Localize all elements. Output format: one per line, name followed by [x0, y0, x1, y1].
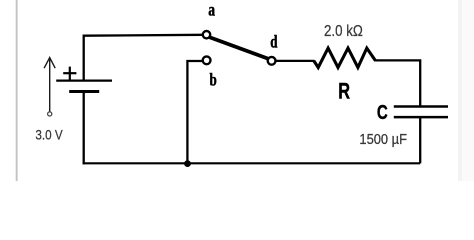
emf arrow — [44, 58, 55, 112]
battery long plate (+) — [56, 79, 112, 81]
emf arrow circle — [48, 112, 52, 116]
svg-text:2.0 kΩ: 2.0 kΩ — [324, 23, 363, 40]
battery short plate (-) — [69, 90, 99, 93]
svg-text:b: b — [210, 69, 217, 89]
right margin shading — [459, 0, 474, 181]
switch blade a-d — [210, 37, 269, 58]
switch terminal b — [203, 56, 211, 64]
junction dot — [184, 160, 191, 167]
svg-text:C: C — [377, 102, 388, 124]
svg-text:a: a — [208, 0, 215, 20]
svg-text:d: d — [270, 32, 277, 52]
capacitor bottom plate — [394, 116, 448, 119]
wire top: battery to switch a — [84, 35, 203, 81]
svg-text:R: R — [338, 79, 350, 104]
capacitor top plate — [394, 105, 448, 108]
switch terminal d — [268, 57, 276, 65]
wire resistor to top right corner and down — [375, 60, 420, 106]
wire capacitor to bottom — [419, 117, 421, 163]
svg-text:3.0 V: 3.0 V — [35, 127, 63, 143]
left margin rule — [16, 0, 18, 181]
svg-text:1500 µF: 1500 µF — [359, 132, 407, 148]
wire b to bottom junction — [187, 61, 202, 163]
resistor R zigzag — [314, 48, 376, 67]
right faint rule — [458, 0, 462, 181]
bottom wire — [83, 162, 421, 164]
switch terminal a — [203, 31, 210, 38]
wire d to resistor — [276, 60, 315, 62]
battery plus sign — [63, 67, 76, 80]
wire battery to bottom — [83, 92, 85, 165]
